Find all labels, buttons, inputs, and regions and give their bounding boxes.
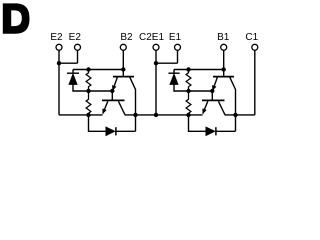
wire freewheel diode FWD1 anode drop: [189, 115, 207, 131]
node collector C1: [233, 113, 237, 117]
wire FWD1 cathode to collector: [216, 115, 236, 131]
transistor Q2 driver base bar: [113, 76, 134, 78]
transistor Q1 driver collector: [230, 77, 236, 115]
wire diode D2a cathode stub: [72, 70, 74, 74]
wire C1 lead up: [254, 50, 256, 115]
wire B2 lead down to driver base: [122, 50, 124, 76]
diode FWD1 triangle: [206, 127, 215, 135]
wire emitter rail E1: [156, 114, 203, 116]
wire diode D1a cathode stub: [173, 70, 175, 74]
svg-text:B1: B1: [217, 32, 230, 43]
wire collector rail C2 to C2E1 node: [136, 114, 157, 116]
transistor Q2 driver emitter arrow: [112, 85, 116, 90]
transistor Q2 output base bar: [102, 99, 125, 101]
diode FWD2 cathode bar: [115, 127, 117, 135]
resistor R1b (B-E of output): [186, 91, 191, 115]
diode FWD1 cathode bar: [215, 127, 217, 135]
resistor R1a (B-E of driver): [186, 70, 191, 92]
svg-text:C2E1: C2E1: [139, 32, 164, 43]
transistor Q2 driver emitter: [113, 77, 118, 90]
node E2 junction: [57, 61, 61, 65]
transistor Q1 output emitter: [203, 101, 208, 113]
node B1 rail junction: [222, 67, 226, 71]
terminal E1: [175, 44, 181, 50]
wire diode D2a anode lead to mid rail: [73, 84, 112, 91]
transistor Q1 output base lead: [211, 91, 213, 100]
transistor Q2 output emitter arrow: [103, 109, 107, 114]
transistor Q1 driver base bar: [213, 76, 234, 78]
letter D (circuit type marker): [3, 3, 30, 33]
svg-text:E2: E2: [69, 32, 82, 43]
wire B1 lead down to driver base: [223, 50, 225, 76]
transistor Q2 driver collector: [130, 77, 136, 115]
node driver emitter / output base Q1: [210, 89, 214, 93]
wire E2 pin1 lead down to emitter rail: [58, 50, 60, 115]
wire E2 pin2 lead: [77, 50, 79, 63]
node driver emitter / output base: [110, 89, 114, 93]
wire C2E1 lead down: [155, 50, 157, 115]
terminal B2: [120, 44, 126, 50]
node B2 rail junction: [121, 67, 125, 71]
diode D1a (B-E diode) cathode bar: [168, 72, 179, 74]
terminal E2 (pin 1): [56, 44, 62, 50]
terminal C1: [252, 44, 258, 50]
wire collector rail C1: [236, 114, 255, 116]
terminal E2 (pin 2): [75, 44, 81, 50]
svg-text:B2: B2: [120, 32, 133, 43]
node resistor R1a top: [186, 67, 190, 71]
node resistor R2b bottom / emitter rail: [86, 113, 90, 117]
node resistor R1a bottom: [186, 89, 190, 93]
terminal C2E1: [153, 44, 159, 50]
terminal B1: [221, 44, 227, 50]
transistor Q1 driver emitter arrow: [212, 85, 216, 90]
wire freewheel diode FWD2 anode drop: [89, 115, 107, 131]
wire emitter bottom rail E2: [59, 114, 103, 116]
wire FWD2 cathode to collector: [116, 115, 136, 131]
transistor Q1 driver emitter: [213, 77, 218, 90]
transistor Q2 output emitter: [103, 101, 108, 113]
wire E1 lead: [177, 50, 179, 63]
resistor R2a (B-E of driver): [86, 70, 91, 92]
node resistor R1b bottom / emitter rail: [186, 113, 190, 117]
transistor Q2 output collector: [118, 101, 135, 115]
wire diode D1a anode lead to mid rail: [174, 84, 212, 91]
resistor R2b (B-E of output): [86, 91, 91, 115]
wire C2E1-E1 tie rail: [156, 62, 178, 64]
node resistor R2a bottom: [86, 89, 90, 93]
node resistor R2a top: [86, 67, 90, 71]
transistor Q1 output emitter arrow: [203, 109, 207, 114]
node C2E1 tie: [154, 61, 158, 65]
diode D2a (B-E diode) cathode bar: [67, 72, 79, 74]
transistor Q1 output base bar: [202, 99, 225, 101]
wire base rail B1: [174, 69, 224, 71]
svg-text:E2: E2: [50, 32, 63, 43]
diode FWD2 triangle: [106, 127, 115, 135]
node collector C2: [133, 113, 137, 117]
node C2E1 bottom junction: [154, 113, 158, 117]
wire E2 tie rail: [59, 62, 78, 64]
diode D1a triangle: [170, 74, 178, 84]
transistor Q1 output collector: [218, 101, 235, 115]
wire base rail B2: [73, 69, 123, 71]
diode D2a triangle: [69, 74, 77, 84]
svg-text:E1: E1: [169, 32, 182, 43]
svg-text:C1: C1: [245, 32, 258, 43]
transistor Q2 output base lead: [111, 91, 113, 100]
